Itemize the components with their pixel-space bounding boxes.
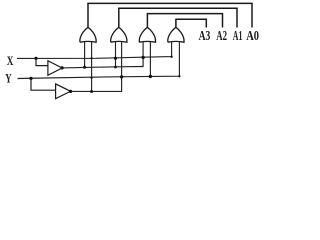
svg-text:Y: Y — [5, 71, 11, 85]
svg-text:X: X — [7, 54, 14, 68]
svg-text:A2: A2 — [216, 28, 227, 43]
svg-text:A1: A1 — [233, 28, 243, 43]
svg-text:A0: A0 — [246, 28, 259, 43]
svg-text:A3: A3 — [199, 28, 211, 43]
